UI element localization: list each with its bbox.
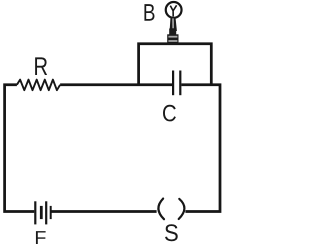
battery F plate long 2 [45,201,47,224]
capacitor C right plate [179,71,181,96]
bulb B base thread stripe 2 [168,40,177,42]
switch S left bracket ( [158,199,164,220]
wire right-side: capacitor to top-right corner, right vertical, bottom-right run [181,85,220,212]
label R [35,57,47,75]
bulb B collar [169,29,176,35]
wire top middle: resistor to capacitor [60,83,172,86]
battery F plate short thick 1 [40,206,43,219]
label S [165,224,178,241]
bulb B neck slit [172,18,174,28]
bulb B screw base [167,34,178,45]
capacitor C left plate [172,71,174,96]
battery F plate short 2 [50,206,52,219]
battery F plate long 1 [34,201,36,224]
bulb B filament Y [170,5,176,16]
label C [163,105,176,122]
bulb B neck [170,17,177,31]
wire left-side: top-left corner, left vertical, bottom-left run [5,85,35,212]
bulb B base thread stripe 1 [168,36,177,38]
label B [144,4,154,21]
resistor R1 zigzag [17,80,60,91]
wire bottom middle: battery to switch [52,210,157,213]
switch S right bracket ) [179,199,185,219]
branch box for bulb: left riser, top edge, right riser [139,44,212,85]
bulb B envelope circle [166,2,182,18]
label F [36,231,46,244]
